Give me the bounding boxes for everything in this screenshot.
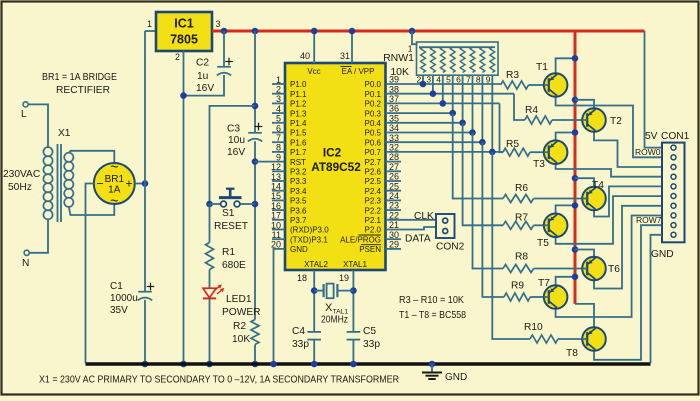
LED LED1 (203, 288, 216, 298)
svg-text:(TXD)P3.1: (TXD)P3.1 (290, 235, 328, 244)
transformer X1 core (57, 144, 59, 222)
svg-text:(RXD)P3.0: (RXD)P3.0 (290, 226, 329, 235)
wire ground rail (86, 362, 651, 365)
svg-text:680E: 680E (222, 260, 246, 271)
svg-text:R10: R10 (524, 322, 543, 333)
svg-text:19: 19 (339, 273, 349, 283)
transformer X1 primary winding (43, 147, 52, 156)
svg-text:P2.2: P2.2 (365, 206, 382, 215)
svg-text:T8: T8 (566, 348, 578, 359)
svg-text:8: 8 (476, 75, 481, 85)
wire secondary bottom to BR1 (69, 204, 115, 215)
svg-text:P0.3: P0.3 (365, 109, 382, 118)
svg-text:P2.7: P2.7 (365, 158, 382, 167)
svg-text:31: 31 (340, 51, 350, 61)
node C2 to pin2 wire (180, 92, 187, 99)
IC2 pin 31 EA/VPP (351, 31, 353, 63)
resistor R8 (503, 265, 534, 273)
svg-text:33p: 33p (363, 339, 380, 350)
wire P0.2 to R5 (500, 103, 504, 152)
svg-text:29: 29 (389, 240, 399, 250)
svg-text:R6: R6 (515, 183, 528, 194)
svg-text:17: 17 (271, 211, 281, 221)
svg-text:P2.1: P2.1 (365, 216, 382, 225)
node C1 rail (142, 361, 149, 368)
svg-text:P2.0: P2.0 (365, 226, 382, 235)
svg-text:11: 11 (272, 230, 281, 240)
svg-text:26: 26 (389, 172, 399, 182)
svg-text:LED1: LED1 (226, 294, 252, 305)
node LED1 rail (206, 361, 213, 368)
svg-text:P1.7: P1.7 (290, 148, 307, 157)
wire IC1 pin2 down to rail (183, 51, 185, 363)
capacitor C1 (138, 291, 152, 293)
wire C4 to rail (313, 340, 315, 364)
transformer X1 secondary winding (64, 153, 73, 162)
resistor R7 (503, 221, 534, 229)
IC2 left pins (272, 83, 285, 85)
svg-text:CON1: CON1 (661, 131, 690, 142)
node RNW1 red rail (409, 28, 416, 35)
svg-text:8: 8 (276, 143, 281, 153)
svg-text:10u: 10u (228, 135, 245, 146)
svg-text:DATA: DATA (405, 234, 431, 245)
svg-text:~: ~ (110, 159, 118, 175)
node C3 red rail (252, 28, 259, 35)
svg-text:P1.5: P1.5 (290, 129, 307, 138)
port P0 row wires and RNW1 drops (386, 83, 501, 85)
svg-text:P3.6: P3.6 (290, 206, 307, 215)
svg-text:+: + (125, 177, 132, 191)
capacitor C2 (217, 66, 231, 68)
svg-text:P2.5: P2.5 (365, 177, 382, 186)
node T3 emitter 5V (572, 129, 579, 136)
svg-text:1u: 1u (197, 71, 208, 82)
svg-text:EA / VPP: EA / VPP (342, 67, 375, 76)
svg-text:X1 = 230V AC PRIMARY TO SECOND: X1 = 230V AC PRIMARY TO SECONDARY TO 0 –… (39, 375, 399, 386)
wire CON1 GND to rail (651, 235, 663, 363)
svg-text:3: 3 (216, 19, 221, 29)
svg-text:2: 2 (276, 85, 281, 95)
svg-text:6: 6 (456, 75, 461, 85)
svg-text:23: 23 (389, 201, 399, 211)
svg-text:P1.0: P1.0 (290, 80, 307, 89)
svg-text:GND: GND (651, 249, 674, 260)
wire T7 emitter (556, 277, 575, 285)
wire T5 collector to ROW4 (556, 196, 662, 244)
svg-text:XTAL2: XTAL2 (304, 260, 328, 269)
svg-text:N: N (22, 258, 29, 269)
svg-text:P0.0: P0.0 (365, 80, 382, 89)
svg-text:R1: R1 (222, 247, 235, 258)
crystal XTAL1 (314, 290, 323, 292)
svg-text:R3: R3 (506, 70, 519, 81)
svg-text:T1: T1 (536, 62, 548, 73)
transistor T8 (582, 327, 606, 351)
svg-text:22: 22 (389, 210, 399, 220)
wire R1 to LED1 (209, 270, 211, 289)
node xtal right (350, 287, 357, 294)
transistor T1 (544, 73, 568, 97)
svg-text:P0.5: P0.5 (365, 129, 382, 138)
svg-text:P0.1: P0.1 (365, 90, 382, 99)
wire T8 emitter (575, 304, 594, 327)
wire T1 emitter (556, 58, 575, 73)
wire C1 to rail (144, 300, 146, 363)
svg-text:7805: 7805 (170, 33, 198, 47)
IC2 pin19 wire (352, 270, 354, 332)
svg-text:16V: 16V (227, 147, 245, 158)
terminal L (23, 102, 28, 107)
ground symbol (429, 361, 436, 368)
svg-text:P1.3: P1.3 (290, 109, 307, 118)
node C4 rail (311, 361, 318, 368)
svg-text:3: 3 (276, 94, 281, 104)
terminal N (24, 250, 29, 255)
wire T3 collector to ROW2 (556, 164, 662, 177)
svg-text:T5: T5 (537, 238, 549, 249)
capacitor C5 (347, 331, 361, 333)
svg-text:P3.3: P3.3 (290, 177, 307, 186)
svg-text:14: 14 (271, 182, 281, 192)
svg-text:GND: GND (445, 372, 467, 383)
IC2 pin 40 Vcc (313, 31, 315, 63)
wire T2 emitter (575, 100, 594, 108)
capacitor C4 (307, 331, 321, 333)
svg-text:4: 4 (276, 104, 281, 114)
wire CLK (386, 219, 437, 221)
wire BR1 plus (135, 183, 145, 185)
svg-text:L: L (21, 109, 27, 120)
svg-text:P3.4: P3.4 (290, 187, 307, 196)
svg-text:P1.2: P1.2 (290, 100, 307, 109)
svg-text:P1.6: P1.6 (290, 138, 307, 147)
svg-text:P1.1: P1.1 (290, 90, 307, 99)
svg-text:T6: T6 (608, 264, 620, 275)
svg-text:P2.4: P2.4 (365, 187, 382, 196)
transistor T7 (544, 285, 568, 309)
node T7 emitter 5V (572, 274, 579, 281)
svg-text:C1: C1 (110, 281, 123, 292)
wire BR1 plus to IC1 pin1 and C1 (144, 31, 146, 292)
svg-text:Vcc: Vcc (307, 67, 320, 76)
svg-text:28: 28 (389, 152, 399, 162)
wire T6 emitter (575, 250, 594, 257)
svg-text:33p: 33p (292, 339, 309, 350)
svg-text:27: 27 (389, 162, 399, 172)
svg-text:T4: T4 (592, 180, 604, 191)
wire P0.1 to R4 (514, 94, 525, 120)
transistor T3 (544, 140, 568, 164)
svg-text:T1 – T8 = BC558: T1 – T8 = BC558 (399, 310, 466, 321)
resistor R3 (501, 81, 529, 89)
wire pin8 drop to R9 (482, 142, 504, 297)
svg-text:6: 6 (276, 123, 281, 133)
node T1 emitter 5V (572, 55, 579, 62)
wire LED1 to rail (209, 298, 211, 363)
svg-text:P2.6: P2.6 (365, 168, 382, 177)
wire DATA (386, 227, 437, 230)
svg-text:7: 7 (466, 75, 471, 85)
node C5 rail (350, 361, 357, 368)
RNW1 pin1 wire (412, 31, 418, 44)
node IC1 pin2 rail (180, 361, 187, 368)
resistor R4 (525, 116, 552, 124)
svg-text:AT89C52: AT89C52 (311, 160, 361, 174)
node 5V branch (252, 103, 259, 110)
svg-text:10: 10 (271, 220, 281, 230)
svg-text:ALE/PROG: ALE/PROG (340, 235, 381, 244)
svg-text:T3: T3 (533, 159, 545, 170)
svg-text:10K: 10K (232, 334, 250, 345)
svg-text:PSEN: PSEN (359, 245, 381, 254)
svg-text:S1: S1 (222, 208, 235, 219)
svg-text:RESET: RESET (214, 221, 248, 232)
node R2 rail (252, 361, 259, 368)
svg-text:10K: 10K (390, 66, 409, 78)
resistor R1 (206, 243, 214, 270)
wire C2 bottom (184, 75, 225, 96)
svg-text:ROW7: ROW7 (636, 215, 662, 225)
svg-text:C3: C3 (227, 124, 240, 135)
svg-text:P3.2: P3.2 (290, 168, 307, 177)
svg-text:3: 3 (426, 75, 431, 85)
wire N to primary (29, 220, 48, 253)
svg-text:1000u: 1000u (110, 293, 138, 304)
wire T4 collector to ROW3 (594, 186, 662, 216)
node pin20 rail (270, 361, 277, 368)
node T4 emitter 5V (572, 175, 579, 182)
svg-text:IC1: IC1 (174, 17, 194, 31)
wire T1 collector to ROW0 (556, 97, 662, 158)
svg-text:15: 15 (271, 191, 281, 201)
connector CON2 (436, 214, 455, 238)
svg-text:P0.4: P0.4 (365, 119, 382, 128)
IC2 pin20 GND wire (274, 249, 286, 363)
svg-text:P2.3: P2.3 (365, 197, 382, 206)
connector CON1 (662, 143, 685, 243)
node C2 red rail (221, 28, 228, 35)
wire pin6 drop to R7 (463, 123, 503, 226)
svg-text:9: 9 (276, 152, 281, 162)
svg-text:P0.6: P0.6 (365, 138, 382, 147)
resistor network RNW1 (417, 42, 499, 75)
wire C5 to rail (352, 340, 354, 364)
wire T2 collector to ROW1 (594, 132, 662, 167)
wire secondary top to BR1 (69, 151, 115, 164)
node xtal left (311, 287, 318, 294)
svg-text:1: 1 (276, 75, 281, 85)
svg-text:40: 40 (300, 51, 310, 61)
svg-text:24: 24 (389, 191, 399, 201)
svg-text:C4: C4 (292, 326, 305, 337)
node BR1 plus junction (142, 180, 149, 187)
node T6 emitter 5V (572, 246, 579, 253)
node RST junction (252, 158, 259, 165)
wire T5 emitter (556, 205, 575, 213)
svg-text:5V: 5V (645, 131, 658, 142)
wire 5V drop to CON1 (645, 31, 663, 148)
svg-text:25: 25 (389, 181, 399, 191)
svg-text:C2: C2 (196, 58, 209, 69)
resistor R9 (504, 293, 530, 301)
node pin31 red rail (349, 28, 356, 35)
transistor T2 (582, 108, 606, 132)
wire S1 to R1 (209, 204, 211, 243)
IC1 7805 (156, 12, 212, 51)
svg-text:CLK: CLK (414, 211, 434, 222)
svg-text:13: 13 (271, 172, 281, 182)
svg-text:16: 16 (271, 201, 281, 211)
wire pin7 drop to R8 (473, 133, 504, 269)
wire T4 emitter (575, 178, 594, 187)
svg-text:RST: RST (290, 158, 306, 167)
svg-text:R3 – R10 = 10K: R3 – R10 = 10K (399, 295, 464, 306)
svg-text:R2: R2 (233, 321, 246, 332)
wire pin9 drop to R10 (492, 152, 530, 339)
svg-text:2: 2 (175, 52, 180, 62)
svg-text:7: 7 (276, 133, 281, 143)
wire C2 top (223, 31, 225, 67)
svg-text:XTAL1: XTAL1 (343, 260, 367, 269)
svg-text:R9: R9 (511, 281, 524, 292)
svg-text:35V: 35V (110, 305, 128, 316)
IC2 pin18 wire (313, 270, 315, 332)
svg-text:P0.2: P0.2 (365, 100, 382, 109)
svg-text:C5: C5 (363, 326, 376, 337)
svg-text:R4: R4 (525, 105, 538, 116)
svg-text:IC2: IC2 (323, 146, 342, 160)
svg-text:BR1 = 1A BRIDGE: BR1 = 1A BRIDGE (42, 72, 117, 83)
svg-text:~: ~ (110, 193, 118, 209)
svg-text:12: 12 (271, 162, 281, 172)
svg-text:9: 9 (486, 75, 491, 85)
wire BR1 minus to ground rail (86, 184, 94, 364)
svg-text:BR1: BR1 (105, 174, 125, 185)
wire 5V column (254, 31, 256, 133)
wire T8 collector to ROW7 (594, 225, 662, 360)
resistor R6 (503, 195, 534, 203)
node T5 emitter 5V (572, 202, 579, 209)
wire C3 to RST (254, 141, 256, 319)
wire T3 emitter (556, 133, 575, 141)
svg-text:P0.7: P0.7 (365, 148, 382, 157)
svg-text:5: 5 (446, 75, 451, 85)
node pin40 red rail (311, 28, 318, 35)
svg-text:X1: X1 (58, 128, 71, 139)
transistor T5 (544, 214, 568, 238)
resistor R2 (251, 320, 259, 345)
svg-text:16V: 16V (196, 83, 214, 94)
svg-text:1: 1 (147, 19, 152, 29)
wire 5V branch to switch column (210, 106, 256, 204)
wire T6 collector to ROW5 (594, 206, 662, 289)
svg-text:R5: R5 (506, 139, 519, 150)
svg-text:P3.7: P3.7 (290, 216, 307, 225)
svg-text:CON2: CON2 (436, 242, 465, 253)
wire 5V red rail (212, 30, 645, 33)
wire L to primary (28, 104, 48, 147)
node T2 emitter 5V (572, 97, 579, 104)
wire 5V red vertical (574, 31, 577, 304)
svg-text:POWER: POWER (222, 307, 261, 318)
svg-text:30: 30 (389, 230, 399, 240)
switch S1 (206, 201, 213, 208)
svg-text:5: 5 (276, 114, 281, 124)
svg-text:ROW0: ROW0 (635, 147, 661, 157)
wire IC1 pin 1 (145, 30, 156, 32)
bridge rectifier BR1 (94, 163, 135, 204)
svg-text:−: − (96, 177, 103, 191)
svg-text:18: 18 (297, 273, 307, 283)
svg-text:P3.5: P3.5 (290, 197, 307, 206)
svg-text:20MHz: 20MHz (321, 314, 348, 326)
resistor R10 (530, 335, 558, 343)
capacitor C3 (248, 132, 262, 134)
svg-text:230VAC: 230VAC (3, 169, 40, 180)
svg-text:R7: R7 (515, 213, 528, 224)
wire R2 to rail (254, 345, 256, 364)
svg-text:R8: R8 (515, 252, 528, 263)
svg-text:T7: T7 (538, 278, 550, 289)
svg-text:P1.4: P1.4 (290, 119, 307, 128)
wire pin5 drop to R6 (453, 113, 503, 198)
IC2 AT89C52 body (285, 63, 386, 270)
svg-text:RNW1: RNW1 (383, 52, 414, 64)
wire T7 collector to ROW6 (556, 216, 662, 318)
wire RST to IC2 pin9 (255, 161, 285, 163)
svg-text:50Hz: 50Hz (8, 182, 32, 193)
svg-text:GND: GND (290, 245, 308, 254)
svg-text:T2: T2 (610, 116, 622, 127)
resistor R5 (503, 148, 530, 156)
svg-text:4: 4 (436, 75, 441, 85)
transistor T6 (582, 257, 606, 281)
svg-text:RECTIFIER: RECTIFIER (56, 85, 110, 96)
transistor T4 (582, 187, 606, 211)
